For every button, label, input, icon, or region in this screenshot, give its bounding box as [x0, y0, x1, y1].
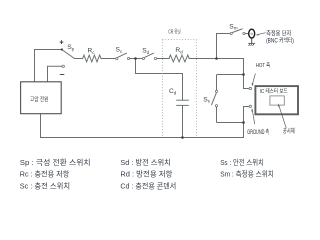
wire Sc to Sd — [130, 58, 143, 60]
arrow to BNC — [257, 33, 265, 35]
wire Rd to right corner — [189, 58, 243, 60]
wire Rc to Sc — [101, 58, 116, 60]
node Cd rail junction — [181, 136, 184, 139]
high-voltage supply box — [21, 82, 62, 114]
node Sp plus contact — [61, 48, 63, 50]
terminal circle HOT — [249, 87, 251, 89]
wire GROUND vertical — [243, 107, 245, 138]
ground symbol — [248, 43, 255, 46]
wire Sp to Rc — [75, 58, 83, 60]
svg-text:HOT 측: HOT 측 — [256, 61, 270, 69]
wire Ss bottom to ground net — [217, 107, 244, 123]
BNC ground stem — [251, 38, 253, 43]
contact circle Sc right — [127, 57, 129, 59]
resistor Rd — [169, 55, 189, 62]
terminal circle GROUND — [249, 105, 251, 107]
BNC connector — [249, 29, 255, 38]
svg-text:(BNC 커넥터): (BNC 커넥터) — [266, 36, 294, 44]
wire bottom rail — [41, 137, 244, 139]
wire + branch horizontal — [35, 49, 62, 51]
arrow GROUND — [253, 111, 255, 124]
specimen inner rect — [270, 96, 284, 105]
wire Ss branch top — [217, 75, 244, 91]
contact circle Sc left — [116, 57, 118, 59]
svg-text:IC 테스터 보드: IC 테스터 보드 — [260, 87, 288, 95]
wire Sd to Rd — [157, 58, 169, 60]
arrow HOT — [253, 74, 256, 84]
contact circle Sd right — [154, 57, 156, 59]
svg-text:Rd : 방전용 저항: Rd : 방전용 저항 — [120, 169, 172, 179]
arrow 공시체 — [279, 107, 286, 129]
contact circle Ss bottom — [215, 105, 217, 107]
contact circle Sm right — [243, 32, 245, 34]
svg-text:Rc : 충전용 저항: Rc : 충전용 저항 — [20, 169, 70, 179]
svg-text:Sm : 측정용 스위치: Sm : 측정용 스위치 — [220, 169, 274, 179]
minus symbol — [60, 74, 65, 76]
svg-text:Ss : 안전 스위치: Ss : 안전 스위치 — [220, 157, 264, 167]
contact circles — [62, 32, 252, 107]
node Sm junction — [215, 57, 218, 60]
svg-text:Sc : 충전 스위치: Sc : 충전 스위치 — [20, 180, 70, 190]
node Ss top junction — [242, 73, 245, 76]
svg-text:고압 전원: 고압 전원 — [30, 95, 49, 103]
IC test board box — [255, 86, 298, 114]
svg-text:측정용 단자: 측정용 단자 — [266, 30, 292, 38]
svg-text:GROUND 측: GROUND 측 — [247, 128, 269, 136]
CR unit dashed box — [163, 40, 197, 138]
wire Sm branch — [217, 34, 231, 59]
plus symbol — [60, 40, 64, 44]
junction dots — [61, 48, 245, 138]
wire minus branch — [48, 66, 63, 82]
capacitor Cd — [176, 100, 189, 105]
switch Sm arm — [232, 29, 242, 33]
wire supply bottom — [40, 114, 42, 138]
svg-text:Sd : 방전 스위치: Sd : 방전 스위치 — [120, 157, 170, 167]
node Ss bottom junction — [242, 121, 245, 124]
svg-text:Sp : 극성 전환 스위치: Sp : 극성 전환 스위치 — [20, 157, 91, 167]
wire left vertical to supply — [34, 50, 36, 82]
contact circle Sm left — [230, 32, 232, 34]
wire Cd to rail — [182, 106, 184, 138]
switch Ss arm — [212, 93, 217, 105]
wire HOT vertical — [244, 59, 250, 89]
switch Sd arm — [145, 53, 154, 57]
resistor Rc — [83, 55, 101, 62]
svg-text:Cd : 충전용 콘덴서: Cd : 충전용 콘덴서 — [120, 180, 176, 190]
node Sc-Cd junction — [134, 57, 137, 60]
wire Sm to BNC — [245, 33, 249, 35]
wire GROUND to terminal — [244, 106, 250, 108]
wire branch to Cd — [136, 59, 183, 101]
svg-text:공시체: 공시체 — [283, 127, 295, 135]
contact circle Ss top — [215, 90, 217, 92]
svg-text:CR 유닛: CR 유닛 — [168, 27, 180, 35]
contact circle Sp minus — [62, 65, 64, 67]
switch Sp arm (closed to +) — [62, 50, 74, 59]
contact circle Sd left — [142, 57, 144, 59]
switch Sc arm — [118, 53, 127, 57]
